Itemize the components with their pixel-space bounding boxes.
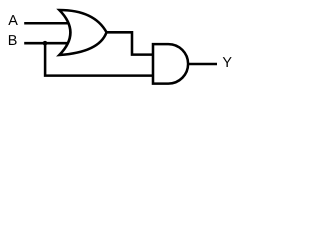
- or-gate OR1: [59, 10, 106, 55]
- wire: input A to OR gate top input: [24, 22, 69, 25]
- svg-text:A: A: [8, 13, 18, 29]
- wire: OR gate output jog to AND gate top input: [107, 32, 154, 54]
- wire: input B to OR gate bottom input: [24, 42, 68, 45]
- junction dot on B wire: [43, 41, 48, 46]
- svg-text:B: B: [8, 33, 18, 49]
- and-gate AND1: [153, 44, 188, 84]
- wire: AND gate output to Y: [188, 63, 217, 66]
- wire: branch from B junction down and right to AND gate lower input: [45, 43, 153, 75]
- svg-text:Y: Y: [222, 55, 232, 71]
